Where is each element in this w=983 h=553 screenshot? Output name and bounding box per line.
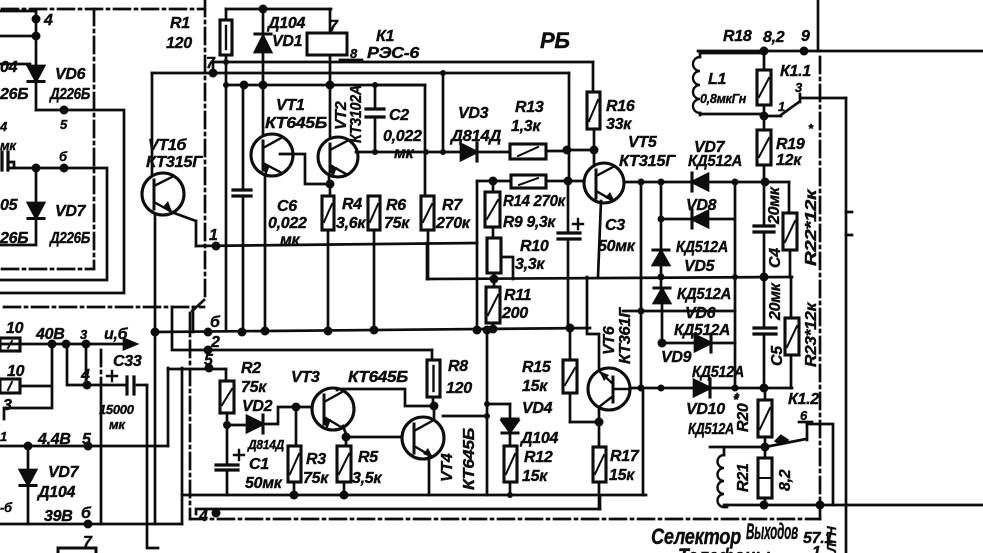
- svg-text:R14 270к: R14 270к: [503, 193, 566, 210]
- svg-text:26Б: 26Б: [0, 86, 28, 103]
- svg-text:VD7: VD7: [55, 203, 87, 220]
- node dot relay bottom: [326, 81, 335, 90]
- wire VD7 line y182: [624, 181, 692, 184]
- wire collector line y152: [356, 151, 461, 154]
- node dot R20 bottom: [761, 443, 770, 452]
- resistor R9 9,3к: [485, 181, 556, 231]
- wire VT16 emitter: [174, 213, 196, 246]
- wire VD4 feed y404: [487, 403, 510, 406]
- wire y168 line to x107 corner down to y280: [0, 168, 107, 280]
- terminal ticks x846: [846, 212, 852, 235]
- diode VD2 Д814Д: [247, 415, 285, 452]
- wire bus y73: [152, 72, 569, 75]
- wire VT4 collector right y416: [443, 415, 487, 418]
- svg-text:VD9: VD9: [661, 349, 692, 366]
- wire K1.1 output y98: [801, 97, 846, 100]
- svg-text:33к: 33к: [606, 116, 632, 133]
- node dot R3 top: [292, 403, 301, 412]
- svg-text:4,4В: 4,4В: [37, 431, 71, 448]
- wire VT2 bottom lead: [328, 177, 331, 184]
- svg-text:КТ315Г: КТ315Г: [146, 154, 204, 171]
- svg-text:R8: R8: [448, 358, 468, 375]
- module boundary dash-dot vertical x205: [204, 0, 207, 300]
- svg-text:С1: С1: [249, 456, 269, 473]
- svg-text:9: 9: [801, 28, 810, 45]
- svg-text:20мк: 20мк: [766, 186, 783, 225]
- wire VT5 emitter: [598, 201, 601, 277]
- module boundary dash-dot vertical x820: [819, 57, 822, 519]
- node dot x662 y343: [658, 339, 667, 348]
- label РБ: [540, 28, 570, 53]
- wire C5 bottom: [763, 334, 766, 388]
- resistor R21 8,2: [758, 447, 794, 505]
- node 7 and stub: [206, 55, 218, 78]
- wire VT3 collector: [337, 389, 433, 406]
- svg-text:0,8мкГн: 0,8мкГн: [700, 91, 746, 106]
- svg-text:R3: R3: [306, 451, 326, 468]
- wire VD9 right up x735: [711, 342, 735, 345]
- svg-text:4: 4: [198, 508, 208, 525]
- svg-text:R15: R15: [522, 359, 552, 376]
- wire bus y62: [213, 61, 593, 64]
- wire VT4 collector link: [433, 406, 436, 418]
- node 5 (left block): [60, 106, 69, 133]
- svg-text:5: 5: [60, 117, 68, 132]
- resistor R7 270к: [421, 196, 471, 232]
- node dot net4: [83, 381, 92, 390]
- resistor R22 12к: [783, 182, 820, 277]
- relay K1 РЭС-6 coil box: [307, 9, 419, 85]
- label ЛГН rotated: [824, 526, 839, 553]
- svg-text:VD8: VD8: [686, 197, 717, 214]
- wire VT4 emitter: [428, 456, 431, 495]
- diode VD7 Д226Б (left block): [0, 197, 90, 247]
- svg-text:б: б: [210, 314, 221, 331]
- svg-text:8,2: 8,2: [777, 469, 794, 491]
- resistor R4 3,6к: [322, 184, 366, 331]
- wire R10 tap stub: [501, 257, 513, 279]
- transistor VT2 КТ3102А: [318, 85, 365, 178]
- svg-text:R7: R7: [442, 197, 463, 214]
- wire x846 long vertical: [845, 98, 848, 553]
- wire left cap to y168 line: [9, 162, 14, 168]
- wire y447 line: [710, 446, 765, 449]
- capacitor C33 15000мк: [99, 353, 147, 432]
- svg-text:39В: 39В: [44, 508, 72, 525]
- resistor R11 200: [486, 287, 532, 323]
- wire bus-б y331: [155, 328, 590, 332]
- diode VD7 КД512А: [688, 139, 742, 191]
- wire y524 line: [0, 520, 182, 552]
- svg-text:R22*12к: R22*12к: [803, 188, 820, 266]
- node dot C2 bottom: [372, 149, 378, 155]
- svg-text:R5: R5: [358, 449, 379, 466]
- node dot VT6 bottom junction: [595, 418, 604, 427]
- wire net-1 line y246: [196, 243, 477, 246]
- svg-text:10: 10: [6, 320, 24, 337]
- svg-text:R20: R20: [735, 403, 752, 432]
- node dot C3 bottom bus: [566, 324, 575, 333]
- wire VT1 right lead to VT2/R4: [280, 154, 330, 184]
- svg-text:10: 10: [7, 363, 25, 380]
- diode VD7 Д104 (lower): [20, 446, 92, 525]
- wire y181 R14 feed: [477, 180, 511, 183]
- node dot x36 y36: [32, 32, 41, 41]
- svg-text:R4: R4: [342, 196, 362, 213]
- wire R7 column down to bus277: [427, 230, 430, 279]
- svg-text:12к: 12к: [776, 152, 802, 169]
- svg-text:КД512А: КД512А: [676, 239, 728, 256]
- svg-text:15к: 15к: [609, 467, 635, 484]
- resistor R17 15к: [593, 422, 640, 508]
- label Телефоны: [678, 544, 770, 553]
- wire R16 bottom jog: [567, 149, 594, 152]
- wire VT6 feed from bus: [587, 277, 599, 369]
- relay contact K1.1: [764, 63, 811, 116]
- node dot R16 bottom: [590, 146, 599, 155]
- capacitor (left edge) plates: [0, 119, 17, 170]
- wire VT5 collector: [593, 150, 596, 166]
- resistor (left row 1): [0, 320, 24, 351]
- transistor VT4 КТ645Б: [402, 417, 478, 490]
- svg-text:3,6к: 3,6к: [336, 215, 366, 232]
- svg-text:КТ315Г: КТ315Г: [619, 153, 677, 170]
- svg-text:L1: L1: [708, 71, 726, 88]
- wire x155 long down: [154, 332, 157, 524]
- svg-text:б: б: [59, 149, 68, 164]
- svg-text:15к: 15к: [522, 378, 548, 395]
- resistor R20 12к: [734, 388, 772, 447]
- svg-text:С6: С6: [277, 198, 297, 215]
- svg-text:R12: R12: [524, 449, 553, 466]
- svg-text:VD6: VD6: [55, 66, 86, 83]
- inductor R21 coil: [718, 447, 753, 507]
- label left-edge partials: [0, 429, 13, 515]
- wire VD5 bottom: [660, 265, 663, 277]
- node dot x735 y182: [732, 179, 739, 186]
- node dot C4 bottom bus: [760, 273, 769, 282]
- capacitor C5 20мк: [754, 277, 786, 366]
- wire VD8 line y219: [658, 216, 693, 223]
- wire box right edge x643: [642, 388, 645, 495]
- svg-text:3,5к: 3,5к: [352, 470, 382, 487]
- wire C2 right branch x425: [424, 85, 427, 196]
- svg-text:4: 4: [43, 12, 53, 29]
- node 4 (left block): [32, 12, 54, 29]
- svg-text:КД512А: КД512А: [677, 286, 731, 303]
- capacitor C4 20мк: [754, 182, 784, 277]
- wire x182 box edge: [181, 368, 184, 524]
- svg-text:VD2: VD2: [242, 398, 273, 415]
- resistor R15 15к: [522, 328, 577, 422]
- diode VD9 КД512А: [661, 334, 744, 381]
- wire net5 y368: [168, 352, 226, 373]
- inductor L1 0,8мкГн: [693, 53, 764, 115]
- wire net и,б arrow line y344: [0, 326, 136, 349]
- capacitor C2 0,022мк: [366, 85, 422, 162]
- label 9: [801, 28, 810, 45]
- node dot R18 bottom: [760, 112, 769, 121]
- wire net5 y446 line: [0, 431, 168, 448]
- svg-text:VD10: VD10: [686, 401, 725, 418]
- svg-text:8,2: 8,2: [763, 29, 785, 46]
- svg-text:КТ361Г: КТ361Г: [617, 306, 634, 364]
- diode VD8 КД512А: [686, 197, 717, 228]
- svg-text:VD1: VD1: [272, 33, 303, 50]
- wire x193 link: [192, 307, 195, 332]
- svg-text:5: 5: [204, 352, 214, 369]
- svg-text:Д226Б: Д226Б: [48, 230, 90, 247]
- wire x735 vertical: [732, 182, 739, 392]
- wire bus y85: [226, 84, 425, 87]
- resistor R16 33к: [587, 62, 635, 150]
- module boundary dash-dot left-block right edge: [93, 9, 96, 268]
- resistor R5 3,5к: [337, 446, 382, 495]
- wire y36 to left edge: [0, 35, 36, 38]
- svg-text:КД512А: КД512А: [688, 153, 742, 170]
- svg-text:мк: мк: [280, 232, 301, 249]
- svg-text:R18: R18: [723, 28, 752, 45]
- svg-text:R9 9,3к: R9 9,3к: [503, 214, 556, 231]
- wire x101 down: [100, 385, 103, 524]
- node dot R10 bus277: [490, 275, 499, 284]
- svg-text:R2: R2: [241, 360, 261, 377]
- wire R15 to VT6 junction: [570, 421, 599, 424]
- svg-text:КД512А: КД512А: [674, 322, 730, 339]
- module boundary dash-dot inner horizontal y307: [4, 306, 204, 309]
- svg-text:2: 2: [210, 334, 220, 351]
- box corner bottom-left: [58, 548, 96, 553]
- svg-text:15000: 15000: [99, 402, 135, 417]
- wire net 4 left: [67, 344, 101, 385]
- svg-text:Д814Д: Д814Д: [449, 128, 502, 145]
- svg-text:Д104: Д104: [36, 484, 75, 501]
- wire x477 vertical: [476, 181, 479, 331]
- transistor VT3 КТ645Б: [291, 369, 408, 430]
- node dot R8 bottom: [430, 402, 439, 411]
- wire R13 right: [546, 150, 567, 153]
- svg-text:R1: R1: [170, 15, 190, 32]
- svg-text:VD5: VD5: [684, 258, 716, 275]
- wire VD2 to VT3 base: [263, 407, 313, 424]
- svg-text:120: 120: [166, 35, 192, 52]
- svg-text:15к: 15к: [522, 468, 548, 485]
- node б (left block): [59, 149, 69, 173]
- node dot y152 x426: [423, 149, 429, 155]
- svg-text:КТ3102А: КТ3102А: [348, 85, 365, 143]
- module boundary dash-dot left-block bottom: [2, 268, 94, 271]
- svg-text:05: 05: [0, 197, 19, 214]
- svg-text:КТ645Б: КТ645Б: [265, 115, 327, 132]
- node dot x568 y181: [564, 177, 573, 186]
- svg-text:75к: 75к: [303, 470, 329, 487]
- module boundary dash-dot top-left: [2, 8, 203, 11]
- svg-text:Д814Д: Д814Д: [247, 437, 285, 452]
- wire bottom bus y505: [724, 504, 983, 507]
- diode VD4 Д104: [502, 400, 558, 447]
- wire x661 to VD5: [660, 182, 663, 250]
- svg-text:Д226Б: Д226Б: [48, 86, 90, 103]
- capacitor C6 0,022мк: [233, 81, 307, 333]
- svg-text:R23*12к: R23*12к: [803, 302, 820, 367]
- svg-text:VT3: VT3: [291, 369, 320, 386]
- node dots y505: [760, 501, 825, 510]
- node dot bus big x155: [151, 314, 222, 337]
- svg-text:VT6: VT6: [601, 326, 618, 355]
- wire top-left y11: [0, 10, 36, 13]
- svg-text:VT4: VT4: [439, 453, 456, 482]
- wire VT16 collector: [151, 73, 154, 174]
- wire x36 y168 to VD7: [35, 168, 38, 202]
- resistor R19 12к: [757, 116, 814, 182]
- transistor VT1 КТ645Б: [251, 97, 327, 176]
- capacitor C1 50мк: [216, 425, 283, 495]
- resistor R23 12к: [785, 277, 820, 388]
- svg-text:мк: мк: [109, 417, 126, 432]
- wire y110 to x124 corner down to y293: [0, 110, 124, 293]
- svg-text:20мк: 20мк: [767, 282, 784, 321]
- node dots y344: [48, 340, 91, 349]
- svg-text:R21: R21: [735, 463, 752, 492]
- wire bus y277: [427, 277, 792, 279]
- node dots y51: [760, 47, 809, 56]
- transistor VT1б КТ315Г: [142, 137, 204, 215]
- label Селектор Выходов: [651, 519, 798, 549]
- wire y508 to y495 link x600: [599, 495, 602, 509]
- wire net4 y508 line: [196, 508, 600, 525]
- svg-text:50мк: 50мк: [245, 475, 283, 492]
- wire R11 bottom: [489, 323, 498, 334]
- svg-text:РБ: РБ: [540, 28, 570, 53]
- wire C33 right lead x147 down: [147, 385, 158, 548]
- svg-text:3: 3: [795, 80, 803, 95]
- node dot VD1 bottom: [259, 81, 268, 90]
- wire VT1 bottom lead to bus: [264, 176, 267, 331]
- resistor R8 120: [427, 350, 472, 406]
- svg-text:VT5: VT5: [628, 134, 658, 151]
- wire box bottom y495: [182, 494, 646, 497]
- node dots bus-б: [238, 326, 492, 337]
- svg-text:R16: R16: [606, 98, 635, 115]
- resistor R1 120: [166, 9, 232, 62]
- wire VT2 top lead: [329, 85, 332, 137]
- wire VT3 emitter: [343, 426, 346, 446]
- svg-text:-б: -б: [0, 500, 13, 515]
- svg-text:VT1б: VT1б: [148, 137, 187, 154]
- svg-text:3,3к: 3,3к: [515, 256, 545, 273]
- wire x36 VD6 to y110: [35, 82, 38, 110]
- wire y425 line: [223, 421, 247, 429]
- node dot bus x208: [204, 328, 213, 337]
- wire VT16 base down to bus: [154, 215, 157, 332]
- diode VD1 Д104: [255, 9, 305, 85]
- wire top y9: [226, 8, 331, 11]
- svg-text:0,022: 0,022: [268, 215, 307, 232]
- svg-text:75к: 75к: [241, 379, 267, 396]
- svg-text:Д104: Д104: [519, 430, 558, 447]
- svg-text:КД512А: КД512А: [688, 421, 734, 438]
- svg-text:VD4: VD4: [522, 400, 553, 417]
- svg-text:КТ645Б: КТ645Б: [348, 369, 408, 386]
- wire net5 riser x168: [167, 368, 170, 446]
- svg-text:ЛГН: ЛГН: [824, 526, 839, 553]
- svg-text:4: 4: [0, 119, 8, 134]
- module boundary dash-dot bottom y519: [190, 518, 820, 521]
- diode VD6 КД512А: [654, 277, 731, 339]
- node dot y150 x567: [563, 146, 572, 155]
- svg-text:С2: С2: [389, 107, 409, 124]
- svg-text:R19: R19: [776, 136, 805, 153]
- svg-text:КТ645Б: КТ645Б: [461, 428, 478, 490]
- wire R9 to R10: [492, 227, 495, 238]
- resistor R18 8,2: [723, 28, 785, 116]
- svg-text:R17: R17: [610, 448, 640, 465]
- svg-text:1: 1: [0, 429, 7, 444]
- wire R10 bottom: [493, 273, 496, 287]
- capacitor C3 50мк: [558, 181, 636, 328]
- svg-text:Выходов: Выходов: [746, 519, 798, 544]
- svg-text:75к: 75к: [384, 215, 410, 232]
- resistor R3 75к: [288, 407, 329, 495]
- svg-text:б: б: [81, 505, 92, 522]
- resistor R2 75к: [220, 360, 273, 425]
- svg-text:С3: С3: [605, 217, 625, 234]
- svg-text:R10: R10: [520, 238, 549, 255]
- svg-text:и,б: и,б: [104, 326, 129, 343]
- svg-text:3: 3: [3, 397, 12, 414]
- svg-text:VD7: VD7: [48, 464, 80, 481]
- wire VD7 to x735: [708, 181, 735, 184]
- resistor (left row 2): [0, 363, 25, 393]
- resistor R12 15к: [504, 433, 553, 495]
- wire y311 link: [623, 308, 735, 315]
- module boundary dash-dot x101: [100, 350, 103, 383]
- diode VD6 Д226Б: [0, 59, 90, 103]
- resistor R14 270к: [503, 175, 566, 210]
- svg-text:1,3к: 1,3к: [511, 118, 541, 135]
- svg-text:мк: мк: [394, 145, 415, 162]
- svg-text:270к: 270к: [435, 215, 471, 232]
- module boundary dash-dot vertical x190: [189, 313, 192, 519]
- svg-text:С33: С33: [113, 353, 142, 370]
- svg-text:200: 200: [501, 305, 528, 322]
- relay contact K1.2: [765, 391, 819, 447]
- svg-text:1: 1: [209, 227, 218, 244]
- svg-text:50мк: 50мк: [598, 238, 636, 255]
- wire net2 y350: [172, 307, 432, 355]
- wire y182 to R19/R22: [735, 181, 789, 184]
- wire VD6 bottom to VD9 line: [661, 303, 664, 343]
- wire VD8 right: [708, 218, 735, 221]
- node dot VD1 top: [259, 5, 268, 14]
- node dot x661 bus277: [658, 274, 665, 281]
- svg-text:VD3: VD3: [458, 105, 489, 122]
- wire bus y51 top right: [698, 50, 983, 53]
- node dot VT1-VT2 junction: [326, 180, 335, 189]
- wire C2 loop top: [372, 82, 425, 88]
- wire VT6 collector line y388: [630, 385, 694, 392]
- wire x641 vertical: [640, 182, 643, 388]
- node 1: [209, 227, 221, 251]
- node dots y446: [24, 442, 93, 451]
- wire y437 to VT4 base: [342, 433, 403, 442]
- wire R14 right to VT5 base: [546, 180, 584, 183]
- svg-text:1: 1: [778, 99, 785, 114]
- svg-text:К1: К1: [376, 28, 395, 45]
- label 57.1: [803, 530, 833, 553]
- wire VD3 to R13: [477, 151, 510, 154]
- svg-text:0,022: 0,022: [383, 128, 422, 145]
